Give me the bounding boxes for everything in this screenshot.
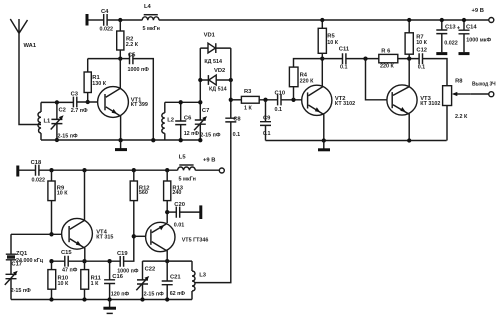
wire: upper section ground rail — [266, 140, 447, 142]
capacitor C21 — [162, 261, 186, 299]
svg-text:+9 В: +9 В — [472, 8, 484, 14]
capacitor C15 — [61, 250, 78, 274]
svg-text:C5: C5 — [128, 52, 136, 58]
inductor L1 and tank1 left rail — [38, 102, 51, 140]
node: C13 on +9V rail — [440, 18, 444, 22]
transistor VT1 — [98, 59, 148, 141]
wire: C4 to node and top rail to L4 — [107, 19, 142, 21]
svg-text:C12: C12 — [416, 48, 427, 54]
svg-text:2.2 К: 2.2 К — [126, 42, 139, 48]
node: R4 bottom / VT2 base — [291, 98, 295, 102]
node: C6 top — [179, 100, 183, 104]
capacitor C6 — [175, 102, 199, 140]
wire: R1 top to collector node — [88, 58, 121, 60]
svg-text:1000 пФ: 1000 пФ — [128, 67, 150, 73]
svg-text:R3: R3 — [244, 89, 252, 95]
svg-text:WA1: WA1 — [24, 43, 37, 49]
wire: collector node to C11 — [322, 58, 342, 60]
resistor R2 — [117, 20, 139, 59]
svg-text:C2: C2 — [59, 108, 66, 114]
node: R9/R10/base junction — [49, 232, 53, 236]
svg-text:VD2: VD2 — [214, 68, 225, 74]
svg-text:L5: L5 — [179, 154, 187, 160]
capacitor C5 — [128, 52, 150, 73]
svg-text:C8: C8 — [233, 116, 241, 122]
svg-text:C4: C4 — [101, 9, 109, 15]
svg-text:R4: R4 — [300, 73, 308, 79]
svg-text:Выход 3Ч: Выход 3Ч — [472, 81, 496, 87]
svg-text:КТ 3102: КТ 3102 — [420, 101, 440, 107]
node: R7 top on +9V rail — [407, 18, 411, 22]
wire: antenna lead down to L1 tap — [19, 33, 41, 124]
svg-text:C21: C21 — [170, 274, 181, 280]
wire: C10 to VT2 base — [281, 99, 306, 101]
node: VT1 emitter / ground — [118, 138, 122, 142]
svg-text:C17: C17 — [11, 261, 22, 267]
node: VT2 collector / R5 / C11 — [320, 56, 324, 60]
node: R13 top — [165, 168, 169, 172]
wire: C5 to tank2 bottom — [133, 59, 153, 141]
wire: diode rail down through C8 to L3 tap — [195, 48, 231, 283]
svg-text:2.2 К: 2.2 К — [455, 114, 468, 120]
capacitor C8 — [225, 116, 241, 138]
wire: tank3 top — [143, 260, 193, 262]
wire: top +9V rail — [159, 19, 489, 21]
capacitor C12 — [416, 48, 427, 71]
node: C4/R2 junction — [118, 18, 122, 22]
capacitor C18 — [31, 160, 45, 184]
node: diode loop bottom-right — [229, 78, 233, 82]
svg-text:220 К: 220 К — [380, 64, 394, 70]
svg-text:C16: C16 — [112, 274, 123, 280]
node: VT4 collector top — [82, 168, 86, 172]
resistor R6 — [379, 48, 419, 69]
svg-text:C14: C14 — [466, 24, 477, 30]
terminal: +9V lower — [219, 168, 224, 173]
wire: C12 to R8 top — [423, 59, 448, 86]
node: R3 / diode rail junction — [229, 98, 233, 102]
svg-text:C13: C13 — [445, 24, 456, 30]
svg-text:VD1: VD1 — [204, 33, 216, 39]
resistor R12 — [130, 170, 149, 200]
svg-text:0.022: 0.022 — [100, 26, 114, 32]
node: C6 bottom — [179, 138, 183, 142]
diode VD1 — [204, 33, 222, 66]
svg-text:5 мкГн: 5 мкГн — [143, 26, 160, 32]
node: R12 top — [132, 168, 136, 172]
node A: C11/R6/VT3 base — [363, 56, 367, 60]
node: R3/C10/C9 junction — [263, 98, 267, 102]
capacitor C19 — [117, 251, 139, 275]
svg-text:C9: C9 — [263, 116, 271, 122]
svg-text:2-15 пФ: 2-15 пФ — [58, 134, 79, 140]
capacitor C4 — [100, 9, 114, 32]
capacitor C7 (variable) — [194, 102, 221, 140]
node: C14 on +9V rail — [462, 18, 466, 22]
node: C15 left junction — [49, 259, 53, 263]
svg-text:L3: L3 — [199, 272, 207, 278]
wire: tank1 / emitter ground bottom wire — [41, 139, 200, 141]
resistor R5 — [318, 20, 339, 59]
node: C7 bottom — [198, 138, 202, 142]
ground (chassis) under VT1 — [120, 140, 122, 149]
transistor VT3 — [387, 59, 441, 141]
resistor R9 — [48, 170, 68, 234]
svg-text:120 пФ: 120 пФ — [111, 292, 130, 298]
svg-text:47 пФ: 47 пФ — [62, 268, 78, 274]
svg-text:C20: C20 — [174, 202, 185, 208]
transistor VT4 — [62, 170, 114, 261]
terminal bar (C20 right) — [199, 205, 202, 219]
wire: lower +9V rail — [39, 169, 178, 171]
crystal ZQ1 — [6, 251, 44, 264]
svg-text:62 пФ: 62 пФ — [170, 291, 186, 297]
svg-text:1000 мкФ: 1000 мкФ — [466, 38, 491, 44]
capacitor C17 (variable) — [5, 261, 31, 294]
node: VT5 bottom / C21 top — [165, 259, 169, 263]
capacitor C11 — [339, 47, 350, 71]
wire: tank2 top — [165, 101, 201, 103]
node: diode loop bottom-left — [198, 78, 202, 82]
svg-text:2-15 пФ: 2-15 пФ — [11, 288, 32, 294]
wire: C11 to node A — [346, 58, 379, 60]
resistor R1 — [84, 59, 107, 102]
capacitor C14 (electrolytic) — [457, 20, 492, 54]
wire: lower ground rail — [11, 299, 192, 301]
capacitor C2 (variable) — [51, 102, 78, 140]
node: VT1 collector / C5 / R2 — [118, 56, 122, 60]
svg-text:2.7 пФ: 2.7 пФ — [71, 108, 88, 114]
node: R5 top on +9V rail — [320, 18, 324, 22]
inductor L3 and tank3 right rail — [192, 261, 207, 299]
diode VD2 — [208, 68, 226, 93]
node: C22 bottom — [140, 297, 144, 301]
resistor R10 — [48, 261, 69, 299]
resistor R11 — [81, 261, 102, 299]
svg-text:2-15 пФ: 2-15 пФ — [200, 132, 221, 138]
node: C16/C19 junction — [107, 259, 111, 263]
wire: input terminal to C4 — [88, 19, 103, 21]
svg-text:+9 В: +9 В — [203, 158, 215, 164]
ground (chassis) under VT2 — [323, 141, 325, 149]
capacitor C10 — [275, 90, 286, 113]
node: C5 return on bottom wire — [151, 138, 155, 142]
svg-text:C15: C15 — [61, 250, 72, 256]
svg-text:0.1: 0.1 — [340, 64, 348, 70]
svg-text:R 6: R 6 — [381, 48, 391, 54]
svg-text:5 мкГн: 5 мкГн — [179, 176, 196, 182]
terminal: +9V supply — [489, 18, 494, 23]
wire: C3 to VT1 base — [77, 101, 104, 103]
node: VT2 emitter on ground rail — [322, 138, 326, 142]
svg-text:560: 560 — [139, 190, 148, 196]
node: R10 bottom — [49, 297, 53, 301]
node: VT4 emitter on wire — [82, 259, 86, 263]
svg-text:C10: C10 — [275, 90, 286, 96]
svg-text:0.022: 0.022 — [32, 178, 46, 184]
svg-text:КД 514: КД 514 — [204, 59, 222, 65]
wire: tank1 top — [41, 101, 73, 103]
svg-text:L1: L1 — [44, 119, 52, 125]
svg-text:VT5 ГТ346: VT5 ГТ346 — [182, 238, 209, 244]
wire: R8 wiper to output terminal — [471, 93, 489, 95]
node B: R6/R7/C12/VT3 collector — [407, 56, 411, 60]
ground (chassis) lower section — [109, 300, 111, 308]
svg-text:КТ 399: КТ 399 — [131, 102, 148, 108]
node: C21 bottom — [165, 297, 169, 301]
svg-text:2-15 пФ: 2-15 пФ — [144, 292, 165, 298]
svg-text:0.022: 0.022 — [444, 41, 458, 47]
svg-text:КТ 315: КТ 315 — [96, 234, 113, 240]
resistor R13 — [164, 170, 184, 223]
inductor L4 — [142, 4, 160, 32]
node: VT3 emitter on ground rail — [407, 138, 411, 142]
capacitor C16 — [104, 261, 129, 299]
svg-text:10 К: 10 К — [327, 40, 338, 46]
terminal bar (lower input) — [16, 166, 19, 177]
resistor R3 — [231, 89, 278, 111]
wire: emitter wire with C15 — [52, 260, 121, 262]
svg-text:130 К: 130 К — [92, 81, 106, 87]
node: R12 bottom / VT5 base — [132, 234, 136, 238]
wire: node A down to VT3 base — [366, 59, 391, 100]
inductor L5 — [178, 154, 196, 182]
svg-text:C6: C6 — [184, 115, 192, 121]
svg-text:1 К: 1 К — [244, 106, 252, 112]
capacitor C3 — [71, 92, 88, 115]
node: tank2 top right / diode rail — [198, 100, 202, 104]
wire: diode loop left rail — [199, 48, 201, 102]
resistor R4 — [289, 59, 322, 100]
wire: terminal to C18 — [19, 169, 36, 171]
svg-text:10 К: 10 К — [416, 40, 427, 46]
wire: L5 to +9V terminal — [195, 169, 219, 171]
node: R11 bottom — [82, 297, 86, 301]
svg-text:10 К: 10 К — [57, 190, 68, 196]
svg-text:C19: C19 — [117, 251, 128, 257]
terminal bar (input) — [86, 14, 89, 26]
wire: node to C5 — [120, 58, 129, 60]
svg-text:ZQ1: ZQ1 — [16, 251, 28, 257]
svg-text:R8: R8 — [455, 79, 463, 85]
svg-text:C22: C22 — [145, 266, 156, 272]
svg-text:C11: C11 — [339, 47, 350, 53]
svg-text:0.1: 0.1 — [275, 107, 283, 113]
terminal: output Выход 3Ч — [489, 92, 494, 97]
svg-text:0.1: 0.1 — [418, 64, 426, 70]
capacitor C22 (variable) — [136, 261, 164, 299]
svg-text:240: 240 — [172, 190, 181, 196]
svg-text:0.1: 0.1 — [263, 131, 271, 137]
transistor VT5 — [146, 222, 209, 261]
node: C2 bottom — [55, 138, 59, 142]
wire: VT4 base wire — [11, 233, 68, 235]
svg-text:КД 514: КД 514 — [209, 86, 227, 92]
svg-text:1000 пФ: 1000 пФ — [117, 268, 139, 274]
svg-text:0.1: 0.1 — [233, 132, 241, 138]
wire: base wire to VT5 — [134, 235, 149, 237]
svg-text:L2: L2 — [167, 118, 174, 124]
inductor L2 and tank2 left rail — [162, 102, 174, 140]
node: C16 bottom / ground — [107, 297, 111, 301]
svg-text:L4: L4 — [144, 4, 152, 10]
svg-text:R5: R5 — [327, 33, 335, 39]
wire: diode loop top — [200, 47, 231, 49]
node: R9 top — [49, 168, 53, 172]
svg-text:КТ 3102: КТ 3102 — [335, 101, 355, 107]
capacitor C13 — [436, 20, 458, 54]
svg-text:C7: C7 — [202, 108, 209, 114]
capacitor C9 — [260, 100, 271, 141]
svg-text:10 К: 10 К — [58, 281, 69, 287]
antenna WA1 — [10, 19, 37, 49]
resistor R7 — [405, 20, 428, 59]
wire: diode loop bottom — [200, 79, 231, 81]
svg-text:1 К: 1 К — [91, 281, 99, 287]
svg-text:C18: C18 — [31, 160, 42, 166]
capacitor C20 — [167, 202, 200, 229]
svg-text:0.01: 0.01 — [174, 222, 185, 228]
svg-text:12 пФ: 12 пФ — [184, 131, 200, 137]
node: C2 top — [55, 100, 59, 104]
svg-text:220 К: 220 К — [300, 79, 314, 85]
node: R1/base wire junction — [86, 100, 90, 104]
svg-text:C3: C3 — [71, 92, 79, 98]
resistor R8 (potentiometer) — [443, 79, 471, 141]
transistor VT2 — [302, 59, 355, 141]
wire: C19 up to VT5 base line — [124, 201, 134, 262]
wire: crystal branch — [10, 234, 12, 299]
node: R13/C20/VT5 top — [165, 210, 169, 214]
